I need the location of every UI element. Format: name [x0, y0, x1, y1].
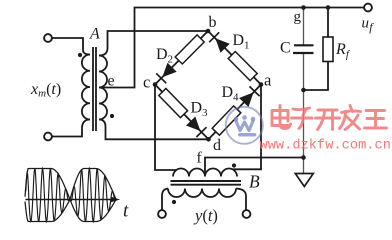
svg-text:u: u [362, 16, 370, 32]
svg-text:B: B [249, 172, 260, 192]
svg-text:g: g [294, 9, 302, 25]
svg-text:A: A [89, 26, 100, 43]
svg-text:c: c [143, 73, 150, 92]
svg-text:1: 1 [244, 39, 250, 51]
svg-text:f: f [369, 20, 374, 34]
svg-text:D: D [156, 46, 168, 63]
svg-text:b: b [209, 14, 217, 31]
svg-text:xm(t): xm(t) [30, 81, 61, 100]
svg-text:www.dzkfw.com.cn: www.dzkfw.com.cn [260, 138, 391, 153]
svg-text:a: a [264, 71, 272, 90]
svg-text:d: d [213, 137, 221, 154]
svg-text:D: D [222, 84, 234, 101]
svg-text:y(t): y(t) [193, 206, 218, 225]
svg-text:D: D [191, 100, 203, 117]
svg-text:f: f [346, 49, 351, 61]
svg-text:e: e [108, 73, 115, 90]
svg-text:C: C [280, 40, 291, 57]
svg-text:t: t [123, 201, 129, 222]
svg-text:D: D [233, 32, 245, 49]
svg-text:R: R [335, 41, 346, 58]
svg-text:4: 4 [233, 91, 239, 103]
svg-text:3: 3 [202, 107, 208, 119]
svg-text:2: 2 [168, 54, 174, 66]
svg-text:f: f [197, 150, 203, 167]
